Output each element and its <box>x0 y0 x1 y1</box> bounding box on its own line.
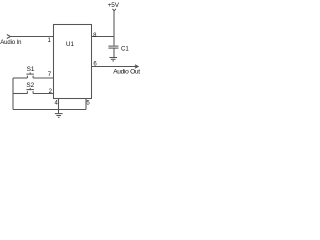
svg-text:S1: S1 <box>27 66 35 73</box>
power +5V arrow <box>113 9 117 46</box>
svg-text:Audio In: Audio In <box>0 40 21 46</box>
wire left rail <box>12 78 14 110</box>
wire pin 4 stub <box>58 99 60 110</box>
svg-text:+5V: +5V <box>108 2 120 9</box>
svg-text:S2: S2 <box>26 82 34 89</box>
wire bottom rail <box>13 109 86 111</box>
wire pin 5 stub <box>85 99 87 110</box>
op-amp U1 box <box>54 25 92 99</box>
wire Audio In to pin 1 <box>10 36 53 38</box>
ground main <box>55 110 63 118</box>
switch S1 <box>26 72 34 78</box>
svg-text:Audio Out: Audio Out <box>113 69 140 76</box>
capacitor C1 <box>108 46 118 57</box>
switch S2 <box>26 88 34 94</box>
svg-text:C1: C1 <box>121 46 129 53</box>
node Audio Out arrow <box>135 65 138 68</box>
svg-text:U1: U1 <box>66 41 74 48</box>
wire pin 6 to Audio Out <box>92 66 138 68</box>
wire S2 left segment <box>13 93 27 95</box>
node Audio In arrow <box>7 35 11 39</box>
wire S2 right segment to pin 2 <box>33 93 53 95</box>
wire pin 8 to +5V stem <box>92 36 115 38</box>
wire S1 right segment to pin 7 <box>33 77 53 79</box>
wire S1 left segment <box>13 77 27 79</box>
ground C1 <box>109 58 117 61</box>
